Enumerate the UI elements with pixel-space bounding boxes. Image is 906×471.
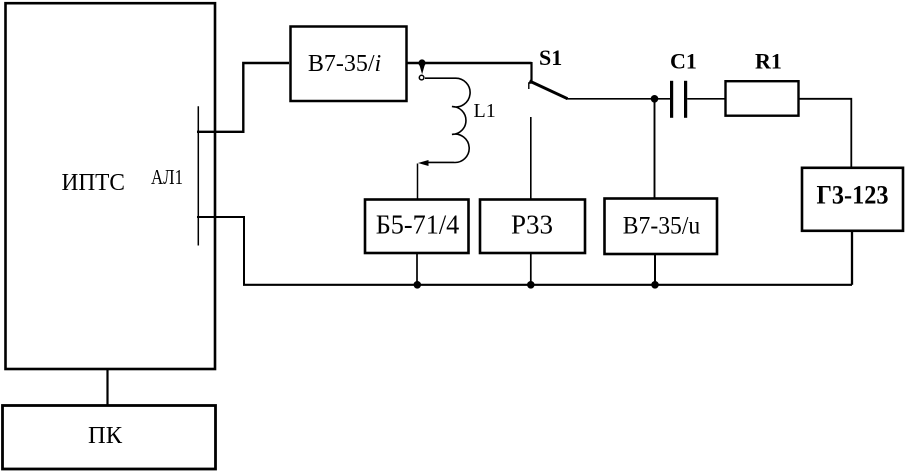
svg-text:С1: С1 bbox=[670, 49, 697, 74]
svg-text:L1: L1 bbox=[474, 100, 496, 122]
svg-text:АЛ1: АЛ1 bbox=[151, 165, 183, 189]
junction dot bus left bbox=[414, 281, 422, 289]
block В7-35/i bbox=[291, 27, 407, 102]
block Г3-123 bbox=[802, 168, 903, 231]
svg-text:Г3-123: Г3-123 bbox=[817, 181, 889, 210]
wire S1 to C1 bbox=[566, 98, 671, 100]
block ИПТС bbox=[6, 3, 216, 369]
wire C1 to R1 bbox=[687, 98, 725, 100]
junction dot node B bbox=[651, 95, 659, 103]
junction dot node A bbox=[418, 59, 425, 66]
svg-text:В7-35/u: В7-35/u bbox=[623, 212, 701, 239]
wire L1 to Б5-71/4 bbox=[417, 164, 419, 200]
svg-text:Р33: Р33 bbox=[511, 209, 553, 239]
wire upper: connector to В7-35/i bbox=[197, 63, 289, 132]
wire Р33 to bus bbox=[530, 253, 532, 285]
switch S1 blade bbox=[530, 81, 568, 99]
inductor arrow head bbox=[418, 160, 429, 166]
wire bus (common rail) bbox=[243, 284, 852, 286]
svg-text:S1: S1 bbox=[539, 45, 562, 70]
block Р33 bbox=[480, 200, 585, 254]
inductor L1 bbox=[425, 78, 470, 162]
capacitor C1 plate left bbox=[670, 81, 673, 118]
svg-text:В7-35/i: В7-35/i bbox=[308, 51, 381, 77]
svg-text:R1: R1 bbox=[755, 49, 782, 74]
svg-text:ИПТС: ИПТС bbox=[62, 170, 126, 196]
resistor R1 bbox=[726, 81, 799, 116]
junction dot bus right bbox=[651, 281, 659, 289]
junction dot bus middle bbox=[527, 281, 535, 289]
wire node B to В7-35/u bbox=[654, 99, 656, 198]
block ПК bbox=[3, 406, 216, 470]
wire Б5-71/4 to bus bbox=[416, 253, 418, 285]
switch S1 pivot contact tick bbox=[529, 83, 532, 89]
wire R1 to corner bbox=[799, 99, 852, 168]
wire S1 lower contact to Р33 bbox=[530, 117, 532, 199]
block В7-35/u bbox=[605, 199, 718, 255]
wire ИПТС to ПК bbox=[106, 369, 108, 406]
wire В7-35/i to switch S1 bbox=[407, 62, 532, 64]
terminal plug taper bbox=[419, 65, 425, 75]
terminal circle bbox=[419, 75, 424, 80]
block Б5-71/4 bbox=[365, 200, 469, 254]
wire В7-35/u to bus bbox=[654, 255, 656, 286]
wire lower: connector to bus corner bbox=[197, 217, 244, 285]
svg-text:ПК: ПК bbox=[88, 422, 123, 449]
switch S1 pole stub bbox=[530, 62, 532, 82]
connector line АЛ1 bbox=[197, 106, 199, 245]
wire Г3-123 to bus bbox=[851, 231, 853, 285]
capacitor C1 plate right bbox=[684, 81, 687, 118]
svg-text:Б5-71/4: Б5-71/4 bbox=[376, 209, 460, 239]
